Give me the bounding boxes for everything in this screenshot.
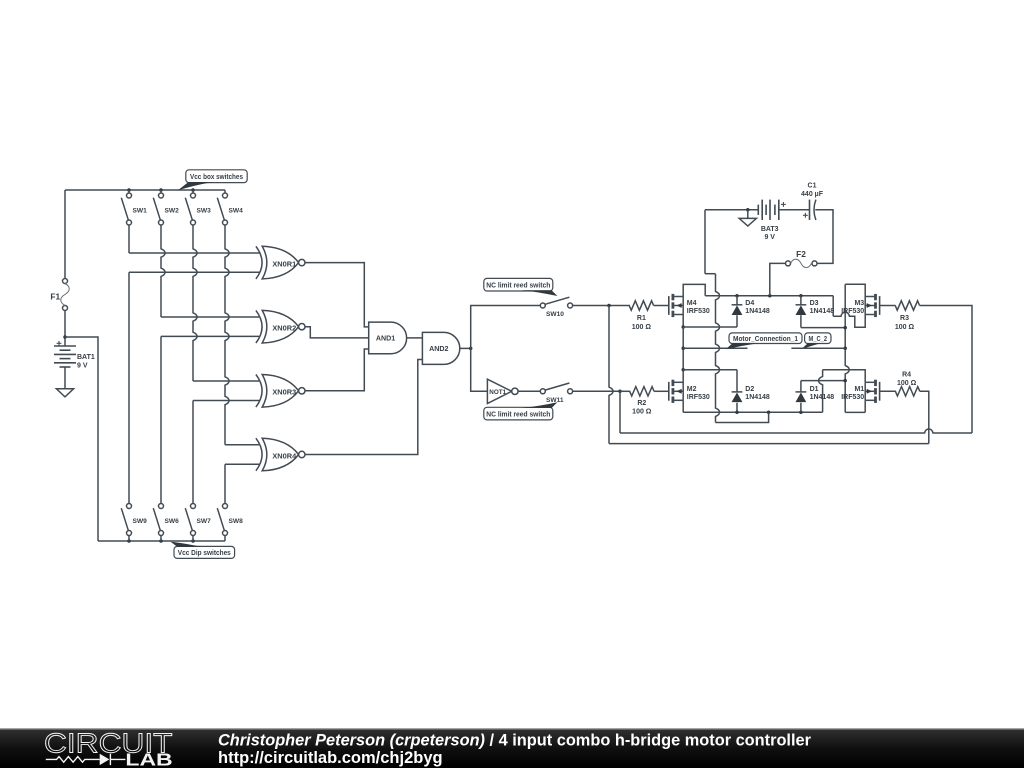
ground BAT3 [747,210,749,219]
svg-text:Christopher Peterson (crpeters: Christopher Peterson (crpeterson) / 4 in… [218,731,812,749]
ground BAT1 [56,389,73,397]
wire AND2out to SW10 [471,306,541,349]
wire left motor column [682,327,684,370]
wire SW10 to R1 node [573,305,630,307]
svg-text:Motor_Connection_1: Motor_Connection_1 [733,334,798,343]
svg-text:SW2: SW2 [165,207,180,214]
switch SW3 [191,193,196,198]
callout NC limit reed switch bottom [484,407,553,420]
wire Vcc dip rail [98,540,225,542]
wire BAT3 minus lead [705,209,758,211]
svg-text:BAT1: BAT1 [77,354,95,361]
wire M1 gate lead [880,390,896,392]
svg-text:SW3: SW3 [197,207,212,214]
wire XNOR4 input A [225,444,259,446]
node rail-SW3 [191,188,195,192]
svg-text:D1: D1 [810,386,819,393]
reed-switch SW11 [540,389,545,394]
node SW11-R2 [618,390,622,394]
wire R4 to crossrow [920,391,929,443]
svg-text:M3: M3 [854,300,864,307]
callout NC limit reed switch top [484,278,553,291]
wire F1 to BAT1 [64,311,66,347]
svg-text:R4: R4 [902,371,911,378]
svg-text:M1: M1 [854,386,864,393]
wire XNOR4 out [305,360,422,455]
node vrail-D2 [735,411,739,415]
wire M4 source drop [682,315,684,328]
fuse F2 [786,261,791,266]
wire R2 to M2 gate [654,390,669,392]
diode D2 [732,391,743,393]
wire R3 to crossrow [920,306,972,434]
svg-text:Vcc box switches: Vcc box switches [190,172,243,181]
wire SW8 column [224,464,226,503]
wire V+ top rail [705,295,833,297]
wire XNOR3 input A [193,380,259,382]
svg-text:M4: M4 [687,300,697,307]
resistor R2 [630,387,654,396]
svg-text:IRF530: IRF530 [687,394,710,401]
svg-text:IRF530: IRF530 [841,394,864,401]
svg-text:AND1: AND1 [376,335,395,343]
svg-text:1N4148: 1N4148 [745,394,770,401]
node motorL-stub [681,347,685,351]
wire XNOR2 out [305,327,369,338]
wire rail stub SW1 [128,190,130,193]
callout M_C_2 [805,333,831,344]
switch SW4 [223,193,228,198]
svg-text:M2: M2 [687,386,697,393]
svg-text:SW10: SW10 [546,311,564,318]
wire AND1 out [407,337,423,339]
wire D2 to bottom rail [736,403,738,413]
svg-text:NC limit reed switch: NC limit reed switch [486,409,550,418]
wire Vcc top rail [65,189,225,191]
switch SW8 [223,504,228,509]
wire rail stub SW4 [224,190,226,193]
wire M1 source drop [864,400,866,412]
reed-switch SW10 [540,303,545,308]
wire C1 to F2 [815,210,833,264]
capacitor C1 [809,200,811,220]
wire rail stub SW2 [160,190,162,193]
node diprail-SW7 [191,539,195,543]
svg-text:NOT1: NOT1 [489,389,506,396]
svg-text:XN0R4: XN0R4 [272,451,297,460]
callout Vcc Dip switches [174,546,235,558]
wire SW6 column [160,336,162,503]
wire M2 drain drop [682,370,684,383]
wire right motor column [845,284,849,412]
wire XNOR2 input A [161,316,259,318]
svg-text:100 Ω: 100 Ω [895,324,915,331]
fuse F1 [63,279,68,284]
svg-text:D2: D2 [745,386,754,393]
svg-text:100 Ω: 100 Ω [632,324,652,331]
svg-text:R2: R2 [637,400,646,407]
svg-text:9 V: 9 V [764,234,775,241]
wire BAT1 to ground [64,367,66,389]
node rail-D3 [799,294,803,298]
node motorR-D3 [843,326,847,330]
node rail-F2 [768,294,772,298]
wire R1 to M4 gate [654,305,669,307]
wire SW9 column [128,272,130,503]
wire SW4 column [225,225,229,445]
diode D3 [796,304,807,306]
wire XNOR1 input A [129,252,259,254]
node motorL-M2drain [681,368,685,372]
wire BAT3 minus detour [716,412,769,422]
wire SW11 to R2 node [573,390,620,392]
svg-text:1N4148: 1N4148 [745,308,770,315]
wire Motor_Connection_1 stub [683,347,747,349]
svg-text:440 µF: 440 µF [801,191,824,198]
wire left rail drop to F1 [64,190,66,279]
svg-text:F2: F2 [796,249,806,259]
not-gate NOT1 [487,379,511,403]
svg-text:100 Ω: 100 Ω [632,409,652,416]
wire XNOR1 out [305,263,369,327]
wire rail to M3 source [833,312,865,327]
resistor R4 [895,387,919,396]
svg-text:BAT3: BAT3 [761,226,779,233]
callout Motor_Connection_1 [729,333,802,344]
wire XNOR3 out [305,349,369,391]
switch SW7 [191,504,196,509]
svg-text:SW6: SW6 [165,518,180,525]
wire XNOR1 input B [129,271,259,273]
wire BAT3 to C1 [779,209,810,211]
svg-text:SW7: SW7 [197,518,212,525]
wire XNOR2 input B [161,335,259,337]
wire dip stub SW9 [128,536,130,542]
wire M_C_2 stub [791,347,845,349]
node diprail-SW9 [127,539,131,543]
wire R2 node lead [620,390,630,392]
svg-text:1N4148: 1N4148 [810,308,835,315]
switch SW6 [159,504,164,509]
svg-text:F1: F1 [50,291,60,301]
transistor M1 [879,382,881,401]
diode D1 [796,391,807,393]
wire XNOR3 input B [193,400,259,402]
wire M2 drain row [683,369,737,371]
svg-text:XN0R1: XN0R1 [272,259,296,268]
node M4src-row [681,325,685,329]
wire D1 to bottom rail [800,403,802,413]
footer bar [0,0,1,1]
xnor-gate XNOR2 [256,310,262,343]
wire rail stub SW3 [192,190,194,193]
xnor-gate XNOR1 [256,246,262,279]
battery BAT3 [757,205,759,215]
wire dip stub SW6 [160,536,162,542]
wire NOT branch crossrow [619,391,621,433]
svg-text:SW4: SW4 [229,207,244,214]
wire M1 drain loop [823,370,866,383]
svg-text:9 V: 9 V [77,362,88,369]
wire dip stub SW8 [224,536,226,542]
node BAT3 ground [746,208,750,212]
svg-text:AND2: AND2 [429,345,448,353]
switch SW1 [127,193,132,198]
svg-text:IRF530: IRF530 [687,308,710,315]
and-gate AND2 [422,332,459,364]
wire M4 drain jog [683,284,705,296]
wire AND2out to NOT1 [471,348,488,391]
transistor M4 [668,296,670,315]
transistor M3 [879,296,881,315]
svg-text:1N4148: 1N4148 [810,394,835,401]
diode D4 [732,304,743,306]
svg-text:SW9: SW9 [133,518,148,525]
svg-text:XN0R2: XN0R2 [272,324,296,333]
wire D3 to motor column [800,315,802,327]
xnor-gate XNOR4 [256,438,262,471]
node vrail-D1 [799,411,803,415]
wire M3 gate lead [880,305,896,307]
resistor R3 [895,301,919,310]
node rail-SW2 [159,188,163,192]
wire SW3 column [193,225,197,381]
svg-text:100 Ω: 100 Ω [897,380,917,387]
svg-text:D4: D4 [745,300,754,307]
wire dip stub SW7 [192,536,194,542]
node BAT1 plus branch [63,335,67,339]
node diprail-SW6 [159,539,163,543]
xnor-gate XNOR3 [256,375,262,408]
wire M3 drain jog [845,284,865,296]
callout Vcc box switches [186,170,247,183]
svg-text:SW8: SW8 [229,518,244,525]
node motorR-D1 [843,379,847,383]
svg-text:R1: R1 [637,315,646,322]
node rail-SW1 [127,188,131,192]
node rail-D4 [735,294,739,298]
switch SW2 [159,193,164,198]
wire XNOR4 input B [225,463,259,465]
svg-text:LAB: LAB [125,749,172,768]
wire BAT3 minus drop [716,274,720,423]
wire SW10 branch crossrow [609,306,613,444]
wire F2 to rail [770,263,786,295]
battery BAT1 [54,345,76,347]
wire SW7 column [192,401,194,504]
wire M2 source to rail [682,400,684,412]
node SW10-R1 [607,304,611,308]
wire SW1 column [128,225,130,253]
and-gate AND1 [369,322,407,354]
svg-text:IRF530: IRF530 [841,308,864,315]
svg-text:http://circuitlab.com/chj2byg: http://circuitlab.com/chj2byg [218,749,443,767]
wire D1 to motor column [801,380,845,382]
logo doodle resistor+diode [46,757,100,763]
wire AND2 out [460,347,471,349]
node vrail-BAT3 [767,411,771,415]
svg-text:NC limit reed switch: NC limit reed switch [486,280,550,289]
transistor M2 [668,382,670,401]
wire M4 source row [683,326,737,328]
wire NOT1 out to SW11 [518,390,540,392]
node motorR-MC2 [843,347,847,351]
switch SW9 [127,504,132,509]
resistor R1 [629,301,653,310]
svg-text:R3: R3 [900,315,909,322]
wire BAT1 to dip rail [65,337,98,541]
svg-text:Vcc Dip switches: Vcc Dip switches [178,548,231,557]
wire V- bottom rail [683,411,822,413]
svg-text:C1: C1 [808,182,817,189]
svg-text:M_C_2: M_C_2 [809,334,828,343]
wire SW2 column [161,225,165,317]
svg-text:D3: D3 [810,300,819,307]
node AND2 out [469,347,473,351]
svg-text:XN0R3: XN0R3 [272,388,296,397]
svg-text:SW1: SW1 [133,207,148,214]
